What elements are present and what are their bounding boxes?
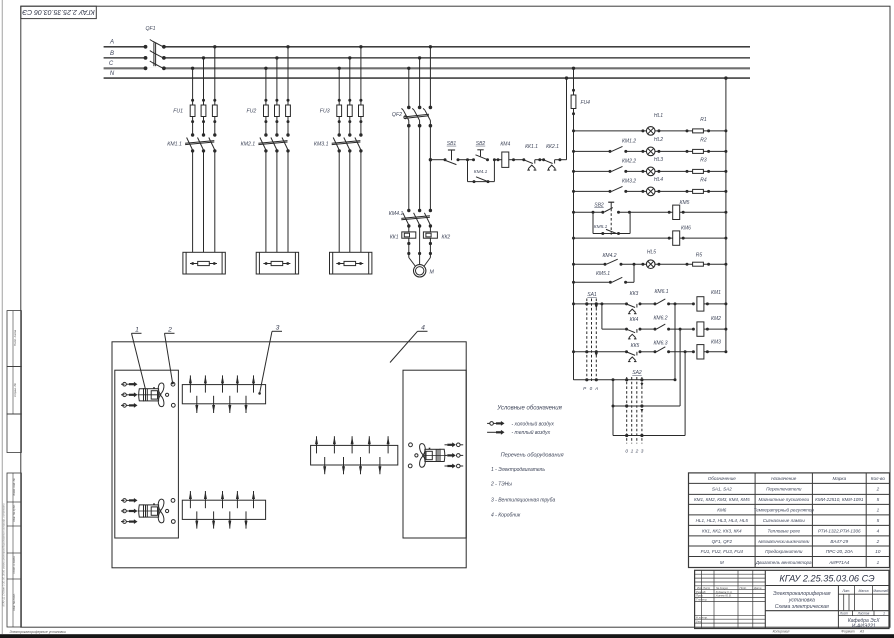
svg-text:Электрокалориферная: Электрокалориферная xyxy=(773,591,831,597)
svg-text:1: 1 xyxy=(135,327,139,334)
layout: fan motor right (blowing out) xyxy=(408,442,463,468)
title block xyxy=(695,570,889,633)
svg-text:Переключатели: Переключатели xyxy=(766,487,802,492)
svg-text:КМ4.1: КМ4.1 xyxy=(389,211,404,217)
svg-text:Электрокалориферные установки: Электрокалориферные установки xyxy=(10,630,66,634)
svg-text:2: 2 xyxy=(635,449,639,455)
svg-text:SB1: SB1 xyxy=(447,141,457,147)
wire right rail from bus N xyxy=(724,76,727,351)
svg-text:5: 5 xyxy=(877,497,880,502)
svg-text:КМ5: КМ5 xyxy=(680,200,690,206)
svg-text:2: 2 xyxy=(876,539,880,544)
legend heading xyxy=(496,406,562,412)
svg-text:0: 0 xyxy=(590,386,593,391)
svg-text:установка: установка xyxy=(788,597,815,603)
bus C xyxy=(104,61,750,68)
wire SA2 row 2 (h2) xyxy=(612,329,681,435)
legend warm air arrow xyxy=(487,429,551,436)
aux contact KM5.1 (seal-in of KM5) xyxy=(593,212,630,235)
thermal relay heater KK1 xyxy=(390,226,416,241)
svg-text:КМ2.2: КМ2.2 xyxy=(622,158,636,164)
svg-text:2: 2 xyxy=(167,327,172,334)
layout: heater bank middle xyxy=(311,436,398,474)
wire rung1 to rung2 xyxy=(601,304,603,329)
margin service boxes xyxy=(2,311,66,635)
svg-text:5: 5 xyxy=(877,518,880,523)
svg-text:3: 3 xyxy=(641,449,644,455)
svg-text:КМ4.1: КМ4.1 xyxy=(474,169,488,175)
wire branch 2 drops from buses xyxy=(264,45,290,105)
svg-text:ВА47-29: ВА47-29 xyxy=(830,539,848,544)
svg-text:Формат: Формат xyxy=(841,630,855,634)
svg-text:ПРС-20, 20А: ПРС-20, 20А xyxy=(826,549,853,554)
svg-text:Лист: Лист xyxy=(839,612,849,616)
svg-text:КМ4.2: КМ4.2 xyxy=(602,253,616,259)
pushbutton SB1 (stop) xyxy=(444,141,460,165)
aux contact KM4.1 (seal-in) xyxy=(468,158,496,183)
svg-text:Тепловые реле: Тепловые реле xyxy=(767,528,800,533)
svg-text:КМ3.2: КМ3.2 xyxy=(622,178,636,184)
wires to motor xyxy=(407,226,432,266)
svg-text:КК1, КК2, КК3, КК4: КК1, КК2, КК3, КК4 xyxy=(702,528,742,533)
wire motor branch drops from buses xyxy=(407,45,432,109)
svg-text:КГАУ-Д. (У)бмн 0.30.00.3006 сх: КГАУ-Д. (У)бмн 0.30.00.3006 схема электр… xyxy=(2,503,6,607)
svg-text:FU1: FU1 xyxy=(173,109,183,115)
wire SB1 to SB2 xyxy=(458,158,474,161)
svg-text:КМ1: КМ1 xyxy=(711,290,721,296)
heater element EK3 (TEN box) xyxy=(330,252,372,274)
layout: fan motor bottom-left xyxy=(121,498,175,524)
svg-text:Схема электрическая: Схема электрическая xyxy=(775,604,829,610)
circuit breaker QF2 xyxy=(392,108,432,127)
leader position 4 (casing) xyxy=(390,325,428,363)
svg-text:КК2.1: КК2.1 xyxy=(546,144,559,150)
thermal contact KK2.1 xyxy=(542,144,561,170)
svg-text:КМ3.1: КМ3.1 xyxy=(314,142,329,148)
svg-text:Лит.: Лит. xyxy=(841,589,850,593)
svg-text:КК2: КК2 xyxy=(442,235,451,241)
bus N xyxy=(104,71,750,78)
svg-text:Масштаб: Масштаб xyxy=(873,589,888,593)
svg-text:R1: R1 xyxy=(700,117,707,123)
svg-text:Обозначение: Обозначение xyxy=(708,476,737,481)
svg-text:- холодный воздух: - холодный воздух xyxy=(512,420,555,427)
wire SA2 row P (h1) xyxy=(574,304,677,382)
rung lamp HL4 xyxy=(572,177,727,196)
wires from КМ2.1 to heater 2 xyxy=(266,151,288,252)
contactor main contacts КМ1.1 xyxy=(167,133,216,152)
svg-text:R2: R2 xyxy=(700,137,707,143)
svg-text:Т.контр.: Т.контр. xyxy=(696,598,708,602)
svg-text:В: В xyxy=(110,51,114,57)
svg-text:Подп.: Подп. xyxy=(740,586,748,590)
wire branch 3 drops from buses xyxy=(338,45,363,105)
selector switch SA1 (dashed linkage) xyxy=(583,292,598,391)
svg-text:HL5: HL5 xyxy=(647,249,656,255)
equipment list xyxy=(490,453,564,519)
svg-text:Магнитные пускатели: Магнитные пускатели xyxy=(758,497,809,502)
svg-text:Температурный регулятор: Температурный регулятор xyxy=(754,506,815,512)
svg-text:КМ1, КМ2, КМ3, КМ4, КМ5: КМ1, КМ2, КМ3, КМ4, КМ5 xyxy=(694,497,750,502)
wires from КМ3.1 to heater 3 xyxy=(339,151,361,252)
svg-text:SA2: SA2 xyxy=(632,370,642,376)
svg-text:Взам. инв. №: Взам. инв. № xyxy=(12,478,16,495)
svg-text:HL1: HL1 xyxy=(654,113,663,119)
svg-text:QF1, QF2: QF1, QF2 xyxy=(712,539,733,544)
bus B xyxy=(104,51,750,58)
wire to bus N xyxy=(560,76,568,159)
wire control rung from phase A tap xyxy=(430,159,445,161)
selector switch SA2 (dashed linkage) xyxy=(625,370,643,455)
svg-text:4: 4 xyxy=(877,528,880,533)
svg-text:С: С xyxy=(109,61,114,67)
wires from КМ1.1 to heater 1 xyxy=(193,151,215,252)
svg-text:FU4: FU4 xyxy=(581,100,591,106)
motor M xyxy=(414,265,435,277)
svg-text:SA1: SA1 xyxy=(587,292,597,298)
svg-text:КК4: КК4 xyxy=(630,317,639,323)
layout: fan motor top-left (pos.1) xyxy=(121,382,175,408)
circuit breaker QF1 xyxy=(144,26,166,70)
svg-text:R3: R3 xyxy=(700,157,707,163)
svg-text:КМ6: КМ6 xyxy=(717,507,727,512)
svg-text:R5: R5 xyxy=(696,253,703,259)
svg-text:SA1, SA2: SA1, SA2 xyxy=(712,487,732,492)
svg-text:10: 10 xyxy=(875,549,881,554)
svg-text:КМ5.1: КМ5.1 xyxy=(596,271,610,277)
svg-text:SB2: SB2 xyxy=(594,203,604,209)
wire left rail xyxy=(573,131,575,380)
svg-text:HL2: HL2 xyxy=(654,137,663,143)
layout: heater bank top-left (pos.3 leader target) xyxy=(182,375,265,413)
rung coil KM3: SA1, KK5, KM6.3 xyxy=(572,339,727,361)
svg-text:КМИ-22510, КМИ-1091: КМИ-22510, КМИ-1091 xyxy=(815,497,864,502)
svg-text:КМ6.2: КМ6.2 xyxy=(653,315,667,321)
svg-text:Двигатель вентилятора: Двигатель вентилятора xyxy=(755,560,812,565)
svg-text:КМ1.2: КМ1.2 xyxy=(622,138,636,144)
svg-text:КК1.1: КК1.1 xyxy=(525,144,538,150)
svg-text:КМ2: КМ2 xyxy=(711,316,721,322)
wire KK1.1 to KK2.1 xyxy=(540,159,544,161)
svg-text:КГАУ 2.25.35.03.06 СЭ: КГАУ 2.25.35.03.06 СЭ xyxy=(779,573,875,583)
svg-text:Утв.: Утв. xyxy=(696,619,703,623)
svg-text:3 - Вентиляционная труба: 3 - Вентиляционная труба xyxy=(491,498,555,504)
coil KM4 xyxy=(494,142,523,168)
svg-text:Усачев Ю.В.: Усачев Ю.В. xyxy=(716,594,732,598)
svg-text:1 - Электродвигатель: 1 - Электродвигатель xyxy=(491,467,545,473)
svg-text:SB2: SB2 xyxy=(476,141,486,147)
bus A xyxy=(104,40,750,47)
rung coil KM2: KK4, KM6.2 xyxy=(602,315,728,339)
rung lamp HL1 xyxy=(572,113,727,135)
svg-text:Предохранители: Предохранители xyxy=(765,549,803,554)
title stamp (rotated) KGAU 2.25.35.03.06 SE xyxy=(21,6,97,18)
aux contact KM5.1 (lamp bypass) xyxy=(572,264,634,284)
svg-text:КМ6.1: КМ6.1 xyxy=(654,289,668,295)
fuse FU1 (3 poles) xyxy=(173,105,217,135)
rung lamp HL5 with contact KM4.2 xyxy=(572,249,727,268)
leader position 1 (electric motor) xyxy=(132,327,146,390)
contactor main contacts КМ2.1 xyxy=(241,133,290,152)
node control tap on phase A xyxy=(429,158,432,161)
layout: duct outline (pos.4) xyxy=(112,342,466,568)
svg-text:Перечень оборудования: Перечень оборудования xyxy=(501,453,564,459)
svg-text:И-АИЭ221: И-АИЭ221 xyxy=(852,623,876,629)
svg-text:2 - ТЭНы: 2 - ТЭНы xyxy=(490,481,512,487)
svg-text:Листов: Листов xyxy=(857,612,870,616)
svg-text:R4: R4 xyxy=(700,177,707,183)
svg-text:N: N xyxy=(110,71,115,77)
svg-text:Инв. № подл.: Инв. № подл. xyxy=(12,593,16,611)
svg-text:HL3: HL3 xyxy=(654,157,663,163)
svg-text:Справ. №: Справ. № xyxy=(13,382,17,396)
svg-text:КМ5.1: КМ5.1 xyxy=(594,224,608,230)
contactor main contacts KM4.1 xyxy=(389,209,432,228)
svg-text:М: М xyxy=(430,270,435,276)
svg-text:Марка: Марка xyxy=(832,476,846,481)
svg-text:1: 1 xyxy=(883,612,885,616)
rung coil KM6 xyxy=(572,226,727,246)
svg-text:Копировал: Копировал xyxy=(773,630,790,634)
fuse FU2 (3 poles) xyxy=(246,105,290,135)
svg-text:КК5: КК5 xyxy=(631,343,640,349)
thermal relay heater KK2 xyxy=(423,226,450,241)
heater element EK2 (TEN box) xyxy=(256,252,298,274)
svg-text:FU3: FU3 xyxy=(320,109,330,115)
wires QF2 to KM4.1 xyxy=(409,126,431,211)
layout: heater bank bottom-left xyxy=(182,491,265,529)
fuse FU4 xyxy=(571,67,590,131)
svg-text:HL1, HL2, HL3, HL4, HL5: HL1, HL2, HL3, HL4, HL5 xyxy=(696,518,749,523)
svg-text:2: 2 xyxy=(876,487,880,492)
wire branch 1 drops from buses xyxy=(191,45,217,105)
svg-text:КМ1.1: КМ1.1 xyxy=(167,142,182,148)
svg-text:Инв. № дубл.: Инв. № дубл. xyxy=(12,504,16,521)
layout: left fan chamber xyxy=(115,370,179,538)
svg-text:Подп. дата: Подп. дата xyxy=(13,330,17,347)
fuse FU3 (3 poles) xyxy=(320,105,364,135)
svg-text:КК3: КК3 xyxy=(630,291,639,297)
svg-text:0: 0 xyxy=(625,449,628,455)
pushbutton SB2 (start) xyxy=(472,141,489,161)
svg-text:Условные обозначения: Условные обозначения xyxy=(496,406,562,412)
svg-text:М: М xyxy=(720,560,724,565)
wire SA2 row 3 (h3) xyxy=(613,352,685,437)
svg-text:1: 1 xyxy=(631,449,634,455)
rung lamp HL3 xyxy=(572,157,727,176)
svg-text:Автоматически выключатели: Автоматически выключатели xyxy=(757,539,809,544)
svg-text:- теплый воздух: - теплый воздух xyxy=(512,429,551,436)
svg-text:РТИ-1322,РТИ-1306: РТИ-1322,РТИ-1306 xyxy=(818,528,861,533)
svg-text:КК1: КК1 xyxy=(390,235,399,241)
svg-text:А: А xyxy=(594,386,598,391)
svg-text:Сигнальные лампы: Сигнальные лампы xyxy=(763,518,806,523)
svg-text:HL4: HL4 xyxy=(654,177,663,183)
svg-text:3: 3 xyxy=(276,325,280,332)
heater element EK1 (TEN box) xyxy=(183,252,225,274)
leader position 3 (heater bank) xyxy=(258,325,282,395)
svg-text:АИР71А4: АИР71А4 xyxy=(828,560,850,565)
svg-text:А3: А3 xyxy=(859,630,864,634)
rung coil KM1: SA1, KK3, KM6.1 xyxy=(572,289,727,314)
layout: right fan chamber xyxy=(403,370,466,538)
thermal contact KK1.1 xyxy=(522,144,541,170)
components table xyxy=(689,473,890,568)
svg-text:Назначение: Назначение xyxy=(771,476,797,481)
leader position 2 (fan) xyxy=(165,327,175,385)
svg-text:1: 1 xyxy=(877,507,880,512)
svg-text:FU2: FU2 xyxy=(246,109,256,115)
svg-text:КГАУ 2.25.35.03.06 СЭ: КГАУ 2.25.35.03.06 СЭ xyxy=(22,8,95,15)
svg-text:Масса: Масса xyxy=(858,589,868,593)
svg-text:FU1, FU2, FU3, FU4: FU1, FU2, FU3, FU4 xyxy=(701,549,744,554)
svg-text:Кол-во: Кол-во xyxy=(871,476,886,481)
svg-text:4 - Коробник: 4 - Коробник xyxy=(491,513,521,519)
legend cold air arrow xyxy=(487,420,554,427)
rung lamp HL2 xyxy=(572,137,727,156)
rung coil KM5 with pushbutton SB2 xyxy=(572,200,727,236)
svg-text:QF1: QF1 xyxy=(145,26,155,32)
svg-text:QF2: QF2 xyxy=(392,112,402,118)
svg-text:4: 4 xyxy=(421,325,425,332)
svg-text:Подп. и дата: Подп. и дата xyxy=(12,556,16,574)
svg-text:А: А xyxy=(109,40,114,46)
svg-text:КМ3: КМ3 xyxy=(711,339,721,345)
svg-text:Дата: Дата xyxy=(753,586,762,590)
svg-text:КМ6.3: КМ6.3 xyxy=(653,340,667,346)
contactor main contacts КМ3.1 xyxy=(314,133,363,152)
svg-text:КМ2.1: КМ2.1 xyxy=(241,142,256,148)
svg-text:1: 1 xyxy=(877,560,880,565)
svg-text:КМ4: КМ4 xyxy=(500,142,510,148)
svg-text:КМ6: КМ6 xyxy=(681,226,691,232)
